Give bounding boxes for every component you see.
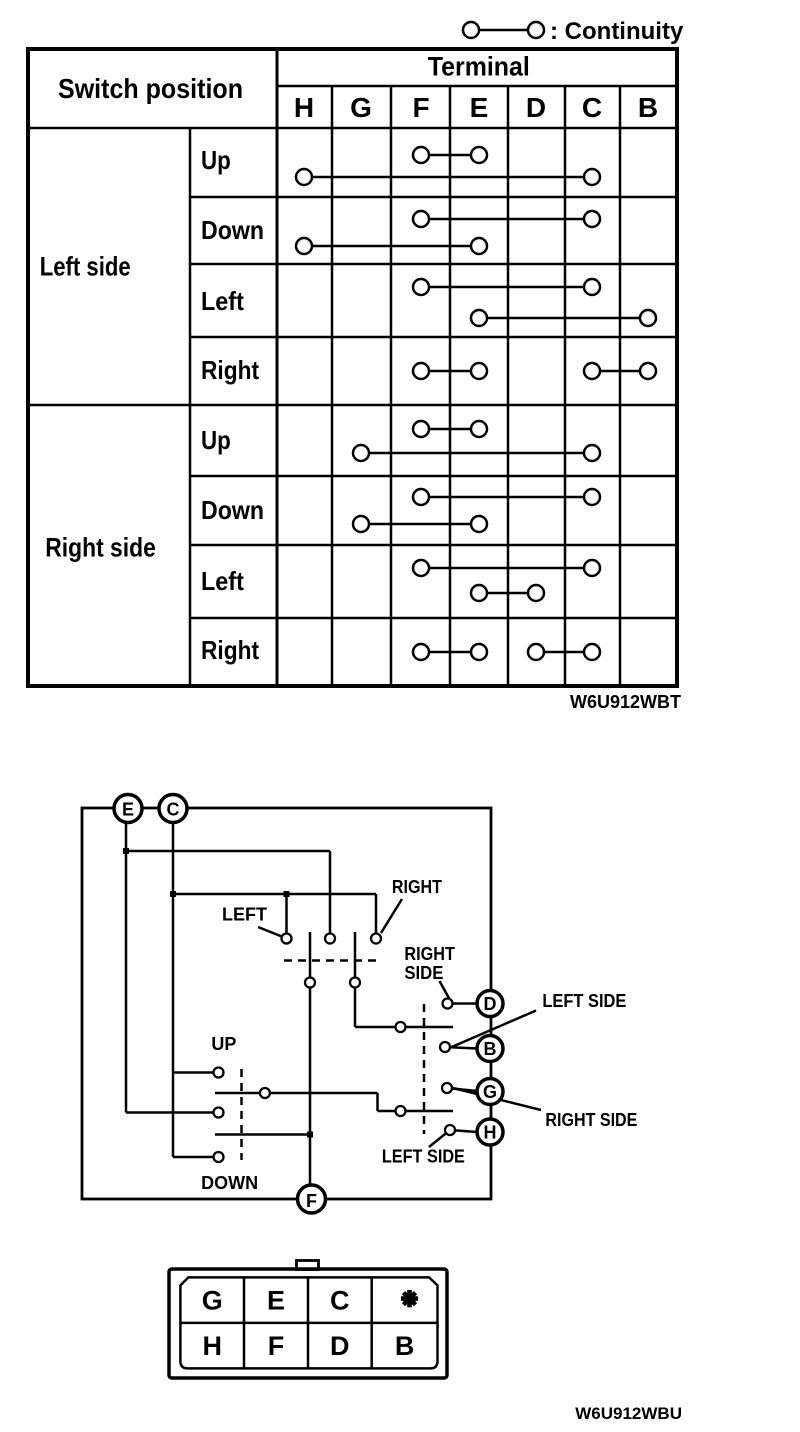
- svg-text:Down: Down: [201, 215, 264, 245]
- svg-text:F: F: [412, 92, 429, 123]
- svg-text:B: B: [638, 92, 658, 123]
- svg-text:E: E: [470, 92, 489, 123]
- svg-text:C: C: [582, 92, 602, 123]
- svg-text:G: G: [483, 1082, 497, 1102]
- svg-text:Down: Down: [201, 495, 264, 525]
- svg-text:D: D: [484, 994, 497, 1014]
- svg-text:W6U912WBU: W6U912WBU: [575, 1404, 682, 1423]
- svg-text:: Continuity: : Continuity: [550, 18, 684, 45]
- svg-text:RIGHT: RIGHT: [404, 944, 455, 964]
- svg-text:Right: Right: [201, 355, 259, 385]
- svg-text:D: D: [526, 92, 546, 123]
- svg-text:H: H: [294, 92, 314, 123]
- svg-text:SIDE: SIDE: [404, 963, 443, 983]
- svg-text:B: B: [395, 1331, 415, 1361]
- svg-text:Up: Up: [201, 425, 231, 455]
- svg-text:E: E: [122, 800, 134, 820]
- svg-text:F: F: [268, 1331, 285, 1361]
- svg-text:F: F: [306, 1191, 317, 1211]
- svg-text:Right side: Right side: [45, 533, 156, 563]
- svg-text:C: C: [330, 1286, 350, 1316]
- svg-text:Switch position: Switch position: [58, 73, 243, 104]
- svg-text:G: G: [350, 92, 372, 123]
- svg-text:H: H: [203, 1331, 223, 1361]
- svg-text:DOWN: DOWN: [201, 1173, 258, 1193]
- svg-text:Terminal: Terminal: [428, 52, 530, 82]
- svg-text:UP: UP: [211, 1034, 236, 1054]
- svg-text:RIGHT: RIGHT: [392, 877, 442, 897]
- svg-text:RIGHT SIDE: RIGHT SIDE: [545, 1110, 637, 1130]
- svg-text:Right: Right: [201, 635, 259, 665]
- svg-text:LEFT SIDE: LEFT SIDE: [542, 991, 626, 1011]
- svg-text:D: D: [330, 1331, 350, 1361]
- svg-text:Left side: Left side: [40, 252, 131, 282]
- svg-text:Left: Left: [201, 566, 244, 596]
- svg-text:B: B: [484, 1039, 497, 1059]
- svg-text:C: C: [167, 800, 180, 820]
- svg-text:LEFT: LEFT: [222, 905, 267, 925]
- svg-text:E: E: [267, 1286, 285, 1316]
- svg-text:G: G: [202, 1286, 223, 1316]
- svg-text:LEFT SIDE: LEFT SIDE: [382, 1147, 465, 1167]
- svg-text:H: H: [484, 1123, 497, 1143]
- svg-text:Left: Left: [201, 286, 244, 316]
- svg-text:Up: Up: [201, 145, 231, 175]
- svg-text:W6U912WBT: W6U912WBT: [570, 692, 681, 712]
